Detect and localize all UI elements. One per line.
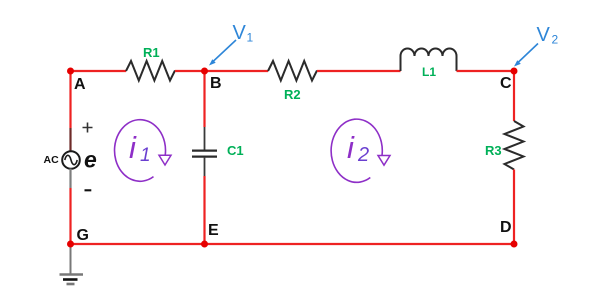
resistor R2	[268, 61, 317, 81]
svg-text:i: i	[347, 130, 355, 165]
AC source e	[62, 151, 80, 169]
resistor R1	[126, 61, 175, 81]
svg-text:E: E	[208, 222, 219, 239]
svg-text:1: 1	[247, 31, 254, 45]
svg-text:B: B	[210, 75, 222, 92]
svg-text:L1: L1	[422, 65, 436, 79]
svg-text:R1: R1	[143, 45, 160, 60]
mesh current i1	[115, 120, 166, 182]
node G	[67, 241, 74, 248]
wire: left rail A down to source	[69, 71, 71, 128]
node A	[67, 68, 74, 75]
minus polarity mark	[85, 189, 92, 191]
wire: bottom rail G to D	[71, 243, 515, 245]
wire: middle rail B down to C1	[203, 71, 205, 127]
svg-text:D: D	[500, 219, 512, 236]
svg-text:C: C	[500, 75, 512, 92]
svg-text:V: V	[537, 24, 551, 46]
arrow V1	[213, 40, 236, 62]
svg-text:AC: AC	[44, 154, 60, 166]
resistor R3	[505, 121, 524, 170]
svg-text:i: i	[129, 130, 137, 165]
plus polarity mark	[83, 123, 93, 133]
node E	[201, 241, 208, 248]
svg-text:G: G	[77, 227, 89, 244]
wire: top rail A to R1	[71, 70, 127, 72]
wire: top rail R1 to R2 through node B	[175, 70, 268, 72]
wire: right rail C down to R3	[513, 71, 515, 121]
node B	[201, 68, 208, 75]
svg-text:e: e	[84, 147, 97, 173]
capacitor C1	[204, 127, 206, 150]
wire: middle rail C1 to E	[203, 176, 205, 244]
svg-text:1: 1	[140, 145, 151, 166]
arrow V2	[518, 44, 538, 63]
mesh current i2	[331, 119, 382, 182]
wire: top rail L1 to C	[457, 70, 515, 72]
inductor L1	[401, 49, 457, 71]
wire: left rail source to G	[69, 188, 71, 244]
wire: top rail R2 to L1	[317, 70, 401, 72]
svg-text:R2: R2	[284, 87, 301, 102]
svg-text:2: 2	[552, 33, 559, 47]
wire: source top lead (dark)	[69, 128, 71, 152]
wire: right rail R3 to D	[513, 170, 515, 245]
node D	[511, 241, 518, 248]
svg-text:C1: C1	[227, 143, 244, 158]
svg-text:A: A	[74, 76, 86, 93]
ground	[70, 246, 72, 274]
node C	[511, 68, 518, 75]
wire: source bottom lead (gray)	[69, 169, 71, 189]
svg-text:R3: R3	[485, 143, 502, 158]
svg-text:2: 2	[357, 144, 369, 166]
